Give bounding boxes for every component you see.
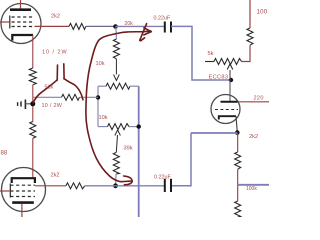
svg-text:5k: 5k [208,51,214,57]
svg-text:2k2: 2k2 [51,14,60,20]
wire loop bottom-left [98,126,108,128]
resistor R9 (vertical, left column) [30,122,36,139]
plate V1 [10,8,31,11]
wire R3 to node D [237,169,239,185]
wire R1 to node A [86,25,116,27]
wire C2 riser [171,133,191,186]
arrowhead bottom [121,180,131,183]
potentiometer P2 10k (top of loop) [106,83,130,89]
svg-text:20k: 20k [125,21,134,27]
svg-text:2k2: 2k2 [51,173,60,179]
node C (cathode U1) [235,130,240,135]
resistor R6 39k (vertical) [113,152,119,174]
svg-text:0.22uF: 0.22uF [154,16,171,22]
ground (left, rotated) [18,100,33,110]
node G [113,183,118,188]
wire C to R3 [237,133,239,152]
resistor R10 2k2 (horizontal bottom) [66,183,85,189]
wiper arrow P3 [115,130,121,152]
wire R8 to node E [80,96,99,98]
node H (cathode junction) [30,101,35,106]
wire R6 to node G [115,174,117,186]
potentiometer P1 5k [205,59,242,81]
resistor R2 100k (vertical right top) [247,28,253,45]
annotation: hand-drawn feedback loop with arrows [86,24,151,185]
tube V1 (top-left pentode) [1,0,41,44]
loop box wires [98,86,139,126]
wire R9 to V2 plate [32,138,34,177]
svg-text:2k2: 2k2 [249,134,258,140]
wire cathode bus (blue) [191,132,237,134]
wiper arrow onto P2 [114,59,120,81]
wire R7 to node H [32,85,34,122]
cathode U1 [219,116,236,119]
wire node A to R5 [115,27,118,40]
wire C1 to ECC83 grid node [171,26,231,80]
wire grid lead U1 [229,80,231,101]
svg-text:10 / 2W: 10 / 2W [42,50,68,56]
wire V1 to R1 [35,25,70,27]
cathode V2 [12,201,34,204]
svg-text:10k: 10k [96,61,105,67]
wire node D to right edge (100k) [238,184,269,186]
wire plate lead V1 [20,0,22,9]
resistor R4 (vertical bottom right) [235,185,241,217]
resistor R3 2k2 (vertical) [235,152,241,169]
wire loop bottom-right [129,126,139,128]
grid U1 [215,109,238,111]
svg-text:39k: 39k [124,146,133,152]
node B (ECC83 top) [229,78,233,82]
resistor R7 10/2W (vertical) [29,68,36,85]
wire node G to C2 [116,185,165,187]
annotation: hand-drawn capacitor [33,64,83,103]
wire loop top-left [98,85,106,87]
svg-text:88: 88 [1,151,8,157]
svg-text:100k: 100k [246,186,257,192]
wire node H to R8 [33,96,62,98]
wire node A to C1 [116,25,165,27]
svg-text:220: 220 [254,96,264,102]
resistor R8 10/2W (horizontal) [62,94,80,100]
svg-text:10 / 2W: 10 / 2W [42,103,63,109]
svg-text:ECC83: ECC83 [209,75,229,81]
svg-text:10k: 10k [99,115,108,121]
cathode V1 [12,35,33,41]
wire blue bus vertical [138,86,140,217]
potentiometer P3 10k (bottom of loop) [108,124,130,130]
svg-text:100: 100 [257,8,268,15]
wire grid V1 to left edge [0,21,10,23]
wiper P1 [227,64,233,70]
arrowhead / X at top [144,28,151,32]
wire R10 to node G [85,185,116,187]
capacitor C1 0.22uF [165,22,171,33]
capacitor C2 0.22uF [165,179,171,192]
plate U1 [221,101,238,103]
svg-text:0.22uF: 0.22uF [154,175,171,181]
node E (loop left) [96,95,100,99]
wire B+ top right [249,0,251,28]
wire cathode V1 down [32,35,34,68]
plate V2 [12,178,35,183]
tube V2 (bottom-left pentode) [2,168,46,218]
resistor R5 10k (vertical) [113,39,119,59]
grid V1 [10,16,35,29]
grid V2 [10,184,35,198]
tube U1 ECC83 (triode) [211,80,240,132]
wire grid V2 to left edge [0,190,10,192]
wire R2 to P1 [242,45,251,61]
wire loop left [97,86,99,126]
wire plate U1 to right edge (220) [238,101,269,103]
wire V2 to R10 [35,185,66,187]
resistor R1 2k2 [69,23,86,29]
node F (loop bottom right) [137,124,141,128]
wire loop top-right [130,85,139,87]
wire cathode V2 down [21,204,23,217]
node A [113,24,118,29]
